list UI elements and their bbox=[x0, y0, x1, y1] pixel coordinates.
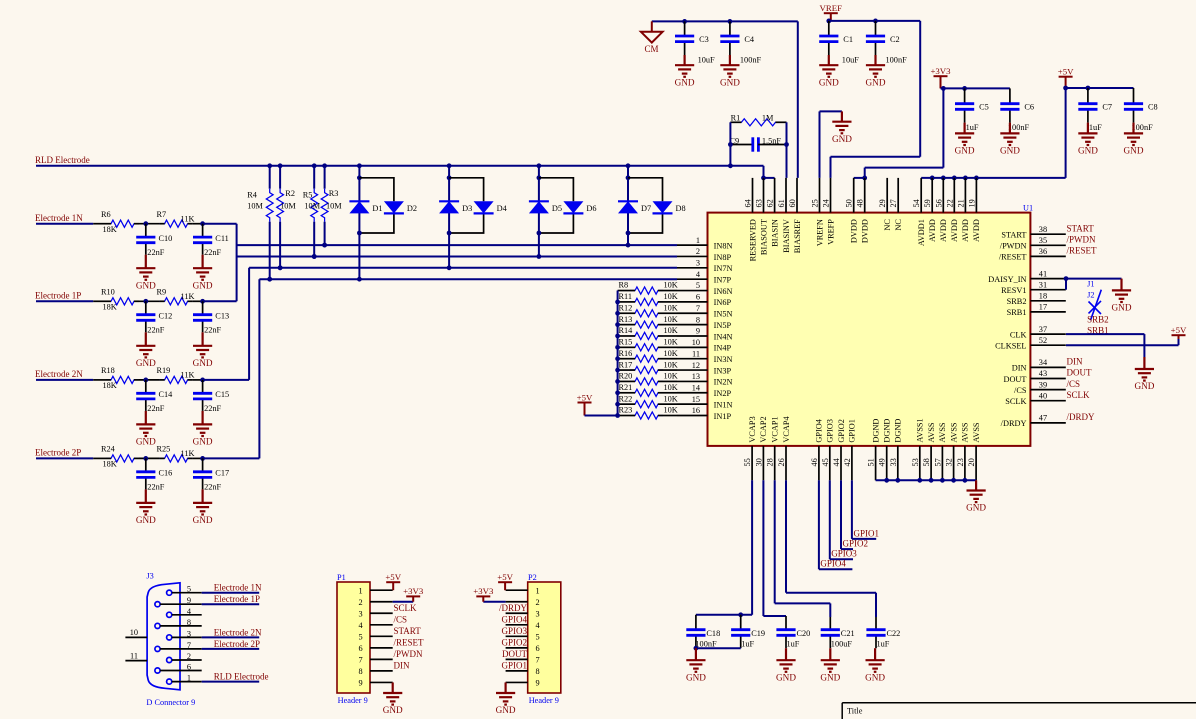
svg-text:52: 52 bbox=[1039, 336, 1047, 345]
pin 1 IN8N bbox=[677, 244, 708, 246]
pin P1-5 bbox=[370, 635, 393, 637]
svg-text:IN5P: IN5P bbox=[714, 321, 732, 330]
capacitor C21 100uF bbox=[829, 617, 831, 630]
junction C17 bbox=[200, 456, 205, 461]
svg-text:+5V: +5V bbox=[1171, 325, 1187, 335]
junction row1 R3 bbox=[322, 243, 327, 248]
pin P1-1 bbox=[370, 589, 393, 591]
resistor R15 10K bbox=[618, 346, 630, 348]
svg-text:SCLK: SCLK bbox=[1067, 390, 1091, 400]
junction +3V3 stem bbox=[941, 86, 946, 91]
ground on CLK bbox=[1135, 357, 1154, 381]
svg-text:C6: C6 bbox=[1024, 103, 1034, 112]
svg-text:28: 28 bbox=[766, 458, 775, 466]
ground below C14 bbox=[136, 411, 155, 436]
svg-text:27: 27 bbox=[889, 199, 898, 207]
node VREF rail wire bbox=[829, 20, 920, 22]
wire resistor network bus bbox=[617, 291, 619, 416]
svg-text:Electrode 1N: Electrode 1N bbox=[35, 213, 83, 223]
pin 20 AVSS bbox=[975, 446, 977, 480]
svg-text:57: 57 bbox=[933, 458, 942, 466]
svg-text:GND: GND bbox=[193, 280, 213, 290]
pin 36 /RESET bbox=[1030, 255, 1065, 257]
wire D5D6 left branch bbox=[538, 166, 540, 257]
svg-text:10K: 10K bbox=[664, 281, 678, 290]
wire J3 RLD Electrode bbox=[202, 681, 260, 683]
junction R5 top on RLD bbox=[312, 163, 317, 168]
pin P2-7 bbox=[506, 658, 528, 660]
svg-text:R3: R3 bbox=[329, 189, 339, 198]
svg-text:+5V: +5V bbox=[1058, 67, 1074, 77]
svg-text:46: 46 bbox=[810, 458, 819, 466]
capacitor C15 22nF bbox=[202, 380, 204, 393]
title block bbox=[842, 703, 1196, 719]
svg-text:GND: GND bbox=[1112, 303, 1132, 313]
junction D1 branch bottom bbox=[357, 231, 362, 236]
resistor R1 1M bbox=[730, 119, 786, 126]
svg-text:49: 49 bbox=[878, 458, 887, 466]
pin 28 VCAP1 bbox=[774, 446, 776, 480]
svg-text:AVSS: AVSS bbox=[972, 422, 981, 443]
pin P2-8 bbox=[506, 670, 528, 672]
node +3V3 rail wire bbox=[941, 87, 1010, 89]
junction bus bbox=[615, 390, 620, 395]
junction bus bbox=[615, 311, 620, 316]
svg-text:AVDD: AVDD bbox=[928, 219, 937, 242]
svg-text:GPIO2: GPIO2 bbox=[843, 539, 869, 549]
resistor R20 10K bbox=[618, 380, 630, 382]
resistor R6 18K bbox=[106, 220, 139, 227]
svg-text:Electrode 2N: Electrode 2N bbox=[214, 627, 262, 637]
junction D7 top on RLD bbox=[626, 163, 631, 168]
svg-text:AVSS1: AVSS1 bbox=[916, 418, 925, 442]
power port +5V at P1 bbox=[386, 582, 400, 590]
svg-text:C20: C20 bbox=[797, 629, 811, 638]
svg-text:AVDD: AVDD bbox=[939, 219, 948, 242]
wire Electrode 2N vertical link bbox=[248, 268, 250, 380]
svg-text:38: 38 bbox=[1039, 225, 1047, 234]
svg-text:GPIO1: GPIO1 bbox=[854, 528, 880, 538]
diode D3 bbox=[439, 201, 459, 213]
junction bus bbox=[615, 345, 620, 350]
wire GPIO4 bbox=[818, 480, 820, 569]
svg-text:GND: GND bbox=[866, 77, 886, 87]
svg-text:10K: 10K bbox=[664, 360, 678, 369]
svg-text:RLD Electrode: RLD Electrode bbox=[35, 155, 90, 165]
svg-text:24: 24 bbox=[822, 198, 831, 207]
svg-text:VCAP1: VCAP1 bbox=[771, 416, 780, 442]
svg-text:44: 44 bbox=[832, 457, 841, 466]
pin P1-8 bbox=[370, 670, 393, 672]
pin J3-6 bbox=[155, 668, 160, 673]
svg-text:22nF: 22nF bbox=[204, 404, 221, 413]
junction bus bbox=[615, 402, 620, 407]
svg-text:GPIO3: GPIO3 bbox=[831, 549, 857, 559]
svg-text:2: 2 bbox=[696, 247, 700, 256]
svg-text:+5V: +5V bbox=[497, 572, 513, 582]
pin 8 IN5P bbox=[677, 324, 708, 326]
wire Electrode 2N mid bbox=[139, 379, 160, 381]
pin 29 NC bbox=[886, 178, 888, 213]
svg-text:C5: C5 bbox=[979, 103, 989, 112]
pin 21 AVDD bbox=[964, 178, 966, 213]
ground on DAISY_IN bbox=[1112, 279, 1131, 302]
junction R4 bottom bbox=[267, 277, 272, 282]
svg-text:GND: GND bbox=[136, 437, 156, 447]
wire Electrode 2N input bbox=[36, 379, 93, 381]
svg-text:6: 6 bbox=[536, 644, 540, 653]
svg-text:61: 61 bbox=[777, 199, 786, 207]
junction +5V stem bbox=[1063, 86, 1068, 91]
pin 13 IN2N bbox=[677, 380, 708, 382]
pin P2-4 bbox=[506, 624, 528, 626]
svg-text:P2: P2 bbox=[528, 573, 537, 582]
svg-text:GPIO4: GPIO4 bbox=[501, 615, 527, 625]
pin 17 SRB1 bbox=[1030, 311, 1065, 313]
svg-text:5: 5 bbox=[536, 632, 540, 641]
svg-text:START: START bbox=[1001, 231, 1026, 240]
pin 6 IN6P bbox=[677, 301, 708, 303]
pin 44 GPIO2 bbox=[840, 446, 842, 480]
junction bus bbox=[615, 300, 620, 305]
svg-text:Electrode 1N: Electrode 1N bbox=[214, 583, 262, 593]
pin 52 CLKSEL bbox=[1030, 344, 1065, 346]
wire J3 Electrode 1N bbox=[202, 592, 260, 594]
wire Electrode 2P input bbox=[36, 457, 93, 459]
svg-text:J3: J3 bbox=[146, 571, 153, 580]
svg-text:10K: 10K bbox=[664, 383, 678, 392]
wire DAISY_IN to ground bbox=[1066, 278, 1122, 280]
svg-text:/RESET: /RESET bbox=[999, 253, 1027, 262]
svg-text:START: START bbox=[394, 626, 422, 636]
svg-text:R9: R9 bbox=[157, 287, 167, 296]
svg-text:GND: GND bbox=[865, 672, 885, 682]
svg-text:DGND: DGND bbox=[871, 419, 880, 443]
svg-text:AVSS: AVSS bbox=[938, 422, 947, 443]
svg-text:12: 12 bbox=[692, 361, 700, 370]
svg-text:SCLK: SCLK bbox=[1005, 397, 1026, 406]
svg-text:C1: C1 bbox=[843, 35, 853, 44]
svg-text:IN8P: IN8P bbox=[714, 253, 732, 262]
svg-text:GND: GND bbox=[1000, 146, 1020, 156]
pin J3-5 bbox=[167, 590, 172, 595]
svg-text:10M: 10M bbox=[280, 201, 296, 210]
junction ground bus bbox=[917, 478, 922, 483]
svg-text:11: 11 bbox=[692, 349, 700, 358]
capacitor C6 100nF bbox=[1009, 88, 1011, 103]
svg-text:20: 20 bbox=[967, 458, 976, 466]
svg-text:R21: R21 bbox=[619, 383, 633, 392]
ground below C7 bbox=[1078, 123, 1097, 145]
svg-text:DOUT: DOUT bbox=[1067, 368, 1092, 378]
wire C18 C19 bottom tie bbox=[696, 647, 741, 649]
svg-text:VCAP3: VCAP3 bbox=[748, 416, 757, 442]
junction R3 bottom bbox=[322, 243, 327, 248]
wire J3 Electrode 2P bbox=[202, 648, 260, 650]
junction row2 D5 bbox=[537, 254, 542, 259]
svg-text:17: 17 bbox=[1039, 303, 1047, 312]
svg-text:BIASINV: BIASINV bbox=[782, 219, 791, 253]
svg-text:START: START bbox=[1067, 223, 1095, 233]
pin 50 DVDD bbox=[853, 178, 855, 213]
wire VCAP4 to C22 bbox=[785, 480, 787, 592]
pin P1-2 bbox=[370, 601, 393, 603]
pin 24 VREFP bbox=[830, 178, 832, 213]
capacitor C1 10uF bbox=[828, 21, 830, 36]
svg-text:C8: C8 bbox=[1148, 103, 1158, 112]
pin P2-2 bbox=[506, 601, 528, 603]
svg-text:1: 1 bbox=[696, 236, 700, 245]
pin 54 AVDD1 bbox=[920, 178, 922, 213]
svg-text:GND: GND bbox=[496, 705, 516, 715]
svg-text:1uF: 1uF bbox=[1089, 123, 1102, 132]
pin 22 AVDD bbox=[953, 178, 955, 213]
svg-text:3: 3 bbox=[536, 609, 540, 618]
svg-text:22nF: 22nF bbox=[147, 483, 164, 492]
svg-text:GND: GND bbox=[193, 358, 213, 368]
svg-text:34: 34 bbox=[1039, 358, 1048, 367]
svg-text:10K: 10K bbox=[664, 394, 678, 403]
svg-text:DVDD: DVDD bbox=[850, 219, 859, 243]
pin 63 BIASOUT bbox=[763, 178, 765, 213]
connector P1 Header 9 body bbox=[337, 582, 370, 693]
junction at C5 bbox=[962, 86, 967, 91]
wire row IN7P bbox=[259, 278, 677, 280]
svg-text:19: 19 bbox=[967, 199, 976, 207]
svg-text:GND: GND bbox=[686, 672, 706, 682]
svg-text:6: 6 bbox=[358, 644, 362, 653]
svg-text:40: 40 bbox=[1039, 391, 1047, 400]
svg-text:Header 9: Header 9 bbox=[529, 696, 559, 705]
resistor R17 10K bbox=[618, 369, 630, 371]
svg-text:GND: GND bbox=[1124, 146, 1144, 156]
svg-text:DIN: DIN bbox=[1012, 364, 1027, 373]
resistor R2 10M bbox=[279, 166, 281, 189]
svg-text:100nF: 100nF bbox=[1008, 123, 1030, 132]
diode D6 bbox=[563, 201, 583, 213]
ground below C6 bbox=[1000, 123, 1019, 145]
junction R5 bottom bbox=[312, 254, 317, 259]
junction at C2 bbox=[873, 19, 878, 24]
ground below C13 bbox=[193, 332, 212, 357]
svg-text:IN4P: IN4P bbox=[714, 344, 732, 353]
capacitor C9 1.5nF bbox=[730, 144, 752, 146]
svg-text:BIASREF: BIASREF bbox=[793, 219, 802, 254]
junction D1 top on RLD bbox=[357, 163, 362, 168]
wire D1D2 left branch bbox=[358, 166, 360, 279]
svg-text:RESV1: RESV1 bbox=[1001, 286, 1026, 295]
node +5V rail wire bbox=[1066, 87, 1134, 89]
svg-text:D5: D5 bbox=[552, 204, 562, 213]
pin J3-2 bbox=[167, 657, 172, 662]
svg-text:VCAP4: VCAP4 bbox=[782, 415, 791, 442]
capacitor C3 10uF bbox=[684, 21, 686, 36]
capacitor C22 1uF bbox=[875, 617, 877, 630]
wire row IN7N bbox=[249, 267, 677, 269]
svg-text:22nF: 22nF bbox=[204, 248, 221, 257]
wire VREFN to ground bbox=[819, 111, 821, 177]
pin 9 IN4N bbox=[677, 335, 708, 337]
ground below C12 bbox=[136, 332, 155, 357]
wire P2 pin2 to +3V3 bbox=[483, 601, 505, 603]
svg-text:64: 64 bbox=[744, 198, 753, 207]
resistor R23 10K bbox=[618, 415, 630, 417]
power port +5V top right bbox=[1059, 77, 1073, 88]
svg-text:9: 9 bbox=[696, 327, 700, 336]
svg-text:1: 1 bbox=[536, 586, 540, 595]
svg-text:8: 8 bbox=[187, 618, 191, 627]
diode D8 bbox=[653, 201, 673, 213]
svg-text:VREFP: VREFP bbox=[826, 219, 835, 245]
junction ground bus bbox=[940, 478, 945, 483]
pin J3-8 bbox=[155, 623, 160, 628]
svg-text:10: 10 bbox=[130, 628, 138, 637]
wire Electrode 2N output bbox=[193, 379, 203, 381]
svg-text:54: 54 bbox=[912, 198, 921, 207]
pin J3-3 bbox=[167, 635, 172, 640]
pin 40 SCLK bbox=[1030, 400, 1065, 402]
capacitor C20 1uF bbox=[785, 616, 787, 630]
wire D5D6 loop bbox=[539, 178, 574, 233]
ground below C5 bbox=[955, 123, 974, 145]
pin 33 DGND bbox=[897, 446, 899, 480]
resistor R18 18K bbox=[106, 376, 139, 383]
power port +5V at P2 bbox=[498, 582, 512, 590]
diode D2 bbox=[384, 201, 404, 213]
svg-text:C7: C7 bbox=[1102, 103, 1112, 112]
svg-text:14: 14 bbox=[692, 383, 701, 392]
pin 30 VCAP2 bbox=[762, 446, 764, 480]
wire Electrode 1N output bbox=[193, 223, 203, 225]
pin P1-6 bbox=[370, 647, 393, 649]
svg-text:/CS: /CS bbox=[1067, 379, 1081, 389]
svg-text:C11: C11 bbox=[215, 234, 229, 243]
wire row IN8P bbox=[237, 256, 677, 258]
svg-text:11K: 11K bbox=[181, 292, 195, 301]
svg-text:26: 26 bbox=[777, 458, 786, 466]
diode D7 bbox=[618, 201, 638, 213]
junction at DVDD pin 48 bbox=[862, 176, 867, 181]
svg-text:10K: 10K bbox=[664, 338, 678, 347]
ground below C18 bbox=[686, 648, 705, 672]
svg-text:D7: D7 bbox=[641, 204, 651, 213]
svg-text:C3: C3 bbox=[699, 35, 709, 44]
svg-text:3: 3 bbox=[187, 629, 191, 638]
junction row2 R5 bbox=[312, 254, 317, 259]
wire Electrode 1P input bbox=[36, 300, 93, 302]
ground on VREFN bbox=[832, 111, 851, 133]
svg-text:10K: 10K bbox=[664, 315, 678, 324]
resistor R16 10K bbox=[618, 358, 630, 360]
power port +3V3 bbox=[934, 76, 948, 88]
junction C15 bbox=[200, 378, 205, 383]
pin 16 IN1P bbox=[677, 415, 708, 417]
svg-text:25: 25 bbox=[811, 199, 820, 207]
junction ground bus bbox=[895, 478, 900, 483]
wire P1 pin2 to +3V3 bbox=[393, 601, 414, 603]
svg-text:10K: 10K bbox=[664, 303, 678, 312]
svg-text:IN7N: IN7N bbox=[714, 264, 733, 273]
capacitor C2 100nF bbox=[875, 21, 877, 36]
power port +5V at CLKSEL bbox=[1172, 335, 1186, 339]
capacitor C18 100nF bbox=[695, 615, 697, 630]
pin P2-9 bbox=[506, 681, 528, 683]
junction C12 bbox=[143, 299, 148, 304]
svg-text:GPIO1: GPIO1 bbox=[848, 419, 857, 443]
resistor R7 11K bbox=[160, 220, 193, 227]
svg-text:DAISY_IN: DAISY_IN bbox=[988, 275, 1026, 284]
ground below C3 bbox=[675, 55, 694, 77]
svg-text:37: 37 bbox=[1039, 325, 1047, 334]
wire D3D4 loop bbox=[449, 178, 484, 233]
pin 32 AVSS bbox=[953, 446, 955, 480]
svg-text:C10: C10 bbox=[159, 234, 173, 243]
ground below C17 bbox=[193, 489, 212, 514]
capacitor C13 22nF bbox=[202, 301, 204, 314]
resistor R3 10M bbox=[324, 166, 326, 189]
pin 61 BIASINV bbox=[785, 178, 787, 213]
svg-text:+3V3: +3V3 bbox=[403, 586, 424, 596]
ground below cap bbox=[821, 648, 840, 672]
pin 51 DGND bbox=[875, 446, 877, 480]
pin J3-7 bbox=[155, 646, 160, 651]
pin 62 BIASIN bbox=[774, 178, 776, 213]
svg-text:IN7P: IN7P bbox=[714, 275, 732, 284]
svg-text:C22: C22 bbox=[887, 629, 901, 638]
svg-text:DOUT: DOUT bbox=[1003, 375, 1026, 384]
junction D5 branch top bbox=[537, 175, 542, 180]
pin P1-9 bbox=[370, 681, 393, 683]
junction R2 top on RLD bbox=[278, 163, 283, 168]
pin 3 IN7N bbox=[677, 267, 708, 269]
wire D7D8 loop bbox=[628, 178, 663, 233]
svg-text:IN5N: IN5N bbox=[714, 310, 733, 319]
pin 11 IN3N bbox=[677, 358, 708, 360]
svg-text:C16: C16 bbox=[159, 469, 173, 478]
wire Electrode 1N input bbox=[36, 223, 93, 225]
svg-text:10K: 10K bbox=[664, 326, 678, 335]
junction AVDD pin 21 bbox=[963, 176, 968, 181]
svg-text:5: 5 bbox=[187, 585, 191, 594]
wire J3 Electrode 2N bbox=[202, 636, 260, 638]
svg-text:9: 9 bbox=[536, 679, 540, 688]
pin P1-4 bbox=[370, 624, 393, 626]
svg-text:1uF: 1uF bbox=[877, 640, 890, 649]
ground at P2 pin9 bbox=[496, 682, 515, 704]
svg-text:1: 1 bbox=[358, 586, 362, 595]
svg-text:Electrode 2N: Electrode 2N bbox=[35, 369, 83, 379]
pin J3-4 bbox=[167, 612, 172, 617]
svg-text:1uF: 1uF bbox=[966, 123, 979, 132]
junction C19 top bbox=[738, 612, 743, 617]
svg-text:R24: R24 bbox=[101, 445, 116, 454]
capacitor C16 22nF bbox=[145, 458, 147, 471]
svg-text:1M: 1M bbox=[762, 113, 774, 122]
svg-text:AVDD: AVDD bbox=[972, 219, 981, 242]
svg-text:+5V: +5V bbox=[577, 392, 593, 402]
svg-text:/PWDN: /PWDN bbox=[1067, 235, 1097, 245]
pin 42 GPIO1 bbox=[851, 446, 853, 480]
wire VCAP2 to C20 bbox=[762, 480, 764, 616]
svg-text:10K: 10K bbox=[664, 292, 678, 301]
resistor R25 11K bbox=[160, 455, 193, 462]
svg-text:GND: GND bbox=[1134, 381, 1154, 391]
junction row3 R2 bbox=[278, 265, 283, 270]
svg-text:IN2P: IN2P bbox=[714, 389, 732, 398]
pin 48 DVDD bbox=[864, 178, 866, 213]
wire CLKSEL to +5V bbox=[1066, 344, 1179, 346]
ground below C16 bbox=[136, 489, 155, 514]
